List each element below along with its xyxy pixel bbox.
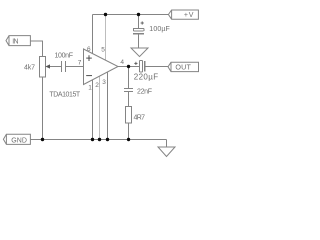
capacitor C1 100nF plates (61, 61, 63, 72)
capacitor C3 220uF right plate (144, 61, 146, 72)
svg-text:OUT: OUT (175, 63, 191, 72)
wire C1 to pin 7 (66, 66, 84, 68)
svg-text:TDA1015T: TDA1015T (49, 91, 81, 98)
capacitor C2 100uF wire from rail (138, 15, 140, 29)
svg-text:220µF: 220µF (134, 73, 159, 82)
capacitor C4 22nF plates (124, 88, 133, 90)
top rail +V (93, 14, 169, 16)
op-amp plus mark (86, 55, 92, 61)
wire pin 2 to ground rail (99, 76, 101, 139)
tag GND (3, 134, 30, 144)
tag IN (6, 36, 30, 46)
svg-text:22nF: 22nF (137, 89, 152, 96)
op-amp U1 TDA1015T triangle (84, 49, 119, 85)
capacitor C2 plus mark (141, 21, 144, 24)
svg-text:6: 6 (87, 46, 91, 53)
svg-text:GND: GND (11, 137, 27, 144)
node gnd-pot (41, 138, 44, 141)
ground rail (30, 139, 166, 141)
wire op-amp output pin 4 to node (118, 66, 139, 68)
svg-text:100nF: 100nF (55, 53, 74, 60)
svg-text:100µF: 100µF (149, 26, 170, 33)
junction dots (41, 13, 140, 141)
wire pin 5 to +V rail (105, 15, 107, 61)
wire C3 to OUT tag (145, 66, 168, 68)
wire output node down to C4 (128, 67, 130, 89)
wire IN tag to potentiometer top (30, 41, 42, 57)
wire potentiometer bottom to ground rail (42, 77, 44, 140)
node gnd-pin3 (106, 138, 109, 141)
capacitor C2 100uF bottom plate (133, 33, 144, 35)
wire wiper to C1 (50, 66, 62, 68)
svg-text:+V: +V (184, 12, 194, 19)
svg-text:2: 2 (95, 82, 99, 89)
node gnd-pin1 (91, 138, 94, 141)
capacitor C2 100uF top plate (133, 28, 144, 31)
wire pin 6 to +V rail (92, 15, 94, 54)
potentiometer R1 4k7 body (40, 57, 46, 78)
potentiometer wiper arrow (45, 64, 50, 68)
tag +V (168, 10, 198, 19)
wire pin 1 to ground rail (92, 80, 94, 139)
node rail-C2 (137, 13, 140, 16)
svg-text:4R7: 4R7 (134, 114, 146, 121)
capacitor C3 plus mark (134, 62, 137, 65)
svg-text:4: 4 (120, 59, 124, 66)
ground symbol below C2 (131, 48, 148, 57)
tag OUT (168, 62, 199, 71)
node gnd-R2 (127, 138, 130, 141)
node gnd-pin2 (98, 138, 101, 141)
resistor R2 4R7 body (126, 107, 132, 124)
node rail-pin5 (104, 13, 107, 16)
wire pin 3 to ground rail (107, 72, 109, 139)
svg-text:3: 3 (102, 79, 106, 86)
svg-text:IN: IN (12, 39, 18, 46)
svg-text:7: 7 (78, 60, 82, 67)
wire C2 to ground symbol (138, 34, 140, 48)
node output (127, 65, 130, 68)
ground symbol bottom right (158, 147, 175, 157)
op-amp minus mark (86, 75, 92, 77)
svg-text:4k7: 4k7 (24, 65, 35, 72)
wire rail to ground symbol (166, 140, 168, 148)
wire C4 to R2 (128, 92, 130, 107)
wire R2 to ground rail (128, 123, 130, 140)
svg-text:5: 5 (101, 47, 105, 54)
svg-text:1: 1 (88, 85, 92, 92)
capacitor C3 220uF left plate (139, 60, 142, 72)
